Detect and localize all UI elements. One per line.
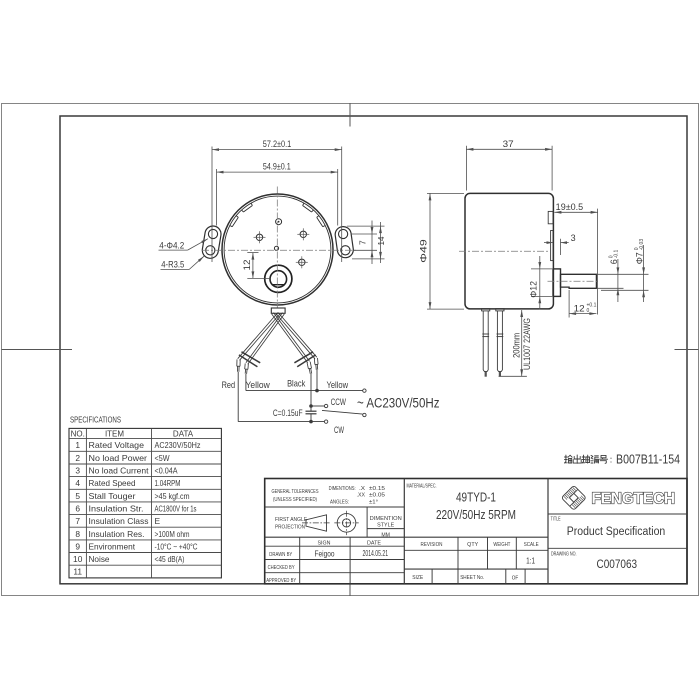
svg-text:57.2±0.1: 57.2±0.1 <box>263 139 292 149</box>
svg-text:4: 4 <box>75 478 80 488</box>
svg-text:Black: Black <box>287 379 305 390</box>
svg-text:220V/50Hz 5RPM: 220V/50Hz 5RPM <box>436 508 516 522</box>
svg-text:DIMENTION: DIMENTION <box>370 516 402 522</box>
svg-text:AC1800V for 1s: AC1800V for 1s <box>155 504 197 514</box>
svg-text:Feigoo: Feigoo <box>315 550 335 559</box>
svg-text:AC230V/50Hz: AC230V/50Hz <box>155 440 201 450</box>
svg-text:Rated Voltage: Rated Voltage <box>89 440 145 450</box>
svg-text:NO.: NO. <box>71 429 85 438</box>
svg-text:PROJECTION: PROJECTION <box>275 524 305 530</box>
svg-text:37: 37 <box>503 139 514 149</box>
svg-text:<45 dB(A): <45 dB(A) <box>155 554 185 564</box>
svg-text:OF: OF <box>512 576 519 582</box>
svg-text:Rated Speed: Rated Speed <box>89 478 136 488</box>
svg-text:1.04RPM: 1.04RPM <box>155 478 181 488</box>
svg-text:200mm: 200mm <box>512 333 522 358</box>
svg-text:.X: .X <box>359 486 366 492</box>
svg-text:MM: MM <box>381 532 390 538</box>
svg-text:QTY: QTY <box>467 542 479 548</box>
svg-text:1:1: 1:1 <box>526 555 535 565</box>
svg-text:GENERAL TOLERANCES: GENERAL TOLERANCES <box>272 489 319 495</box>
svg-text:SCALE: SCALE <box>524 542 539 548</box>
svg-text:CHECKED BY: CHECKED BY <box>268 565 295 571</box>
svg-text:6: 6 <box>75 504 80 514</box>
svg-text:Φ7: Φ7 <box>635 252 645 264</box>
svg-text:SHEET No.: SHEET No. <box>460 575 484 581</box>
svg-text:UL1007 22AWG: UL1007 22AWG <box>522 318 532 370</box>
svg-text:7: 7 <box>75 516 80 526</box>
svg-text:6: 6 <box>609 259 619 264</box>
svg-text:14: 14 <box>376 236 386 245</box>
svg-text:~ AC230V/50Hz: ~ AC230V/50Hz <box>357 396 440 411</box>
svg-text:C007063: C007063 <box>597 557 638 571</box>
svg-text:3: 3 <box>75 466 80 476</box>
svg-text:Insulation Str.: Insulation Str. <box>89 504 144 514</box>
svg-text:FIRST ANGLE: FIRST ANGLE <box>275 517 308 523</box>
svg-text:<0.04A: <0.04A <box>155 466 178 476</box>
svg-text:No load Power: No load Power <box>89 453 148 463</box>
svg-text:.XX: .XX <box>357 493 366 499</box>
svg-text:10: 10 <box>73 554 83 564</box>
svg-text:ITEM: ITEM <box>105 429 124 438</box>
svg-text:Product Specification: Product Specification <box>567 526 666 538</box>
svg-text:±0.15: ±0.15 <box>369 486 385 492</box>
svg-text:3: 3 <box>571 233 576 243</box>
svg-text:Stall Touger: Stall Touger <box>89 491 136 501</box>
svg-text:-0.03: -0.03 <box>639 239 645 251</box>
svg-text:±1°: ±1° <box>369 499 378 505</box>
svg-text:Yellow: Yellow <box>246 380 270 391</box>
svg-text:DATA: DATA <box>173 429 194 438</box>
svg-text:FENGTECH: FENGTECH <box>592 490 676 507</box>
svg-text:Φ49: Φ49 <box>419 239 429 263</box>
svg-text:DIMENTIONS:: DIMENTIONS: <box>329 486 356 492</box>
svg-text:11: 11 <box>73 567 82 577</box>
svg-text:12: 12 <box>574 304 585 314</box>
svg-text:7: 7 <box>358 240 368 245</box>
svg-text:8: 8 <box>75 529 80 539</box>
svg-text:±0.05: ±0.05 <box>369 493 385 499</box>
svg-text:12: 12 <box>242 260 252 271</box>
svg-text:19±0.5: 19±0.5 <box>556 202 584 212</box>
svg-text:(UNLESS SPECIFIED): (UNLESS SPECIFIED) <box>273 497 317 503</box>
svg-text:APPROVED BY: APPROVED BY <box>266 578 296 584</box>
svg-text:STYLE: STYLE <box>377 523 395 529</box>
svg-text:ANGLES:: ANGLES: <box>330 499 349 505</box>
svg-text:CCW: CCW <box>331 397 346 408</box>
svg-text:-10°C ~ +40°C: -10°C ~ +40°C <box>155 541 198 551</box>
svg-text:DRAWING NO.: DRAWING NO. <box>551 552 577 558</box>
svg-text:49TYD-1: 49TYD-1 <box>456 491 496 505</box>
svg-text:2014.05.21: 2014.05.21 <box>363 549 389 558</box>
svg-text:E: E <box>155 516 161 526</box>
svg-text:B007B11-154: B007B11-154 <box>616 452 680 467</box>
svg-text:9: 9 <box>75 541 80 551</box>
svg-text:Φ12: Φ12 <box>529 281 539 298</box>
svg-text:Yellow: Yellow <box>327 380 349 391</box>
svg-text:2: 2 <box>75 453 80 463</box>
svg-text:SPECIFICATIONS: SPECIFICATIONS <box>70 415 121 425</box>
svg-text:-0.1: -0.1 <box>613 249 619 258</box>
svg-text:DATE: DATE <box>367 541 382 547</box>
svg-text:Red: Red <box>222 380 236 391</box>
svg-text:DRAWN BY: DRAWN BY <box>269 552 292 558</box>
svg-text:SIGN: SIGN <box>318 541 331 547</box>
svg-text:54.9±0.1: 54.9±0.1 <box>263 162 291 172</box>
svg-text:4-R3.5: 4-R3.5 <box>161 260 184 270</box>
svg-text:MATERIAL/SPEC.: MATERIAL/SPEC. <box>407 484 437 490</box>
svg-text:1: 1 <box>75 440 80 450</box>
svg-text:C=0.15uF: C=0.15uF <box>273 408 303 419</box>
svg-text:>45 kgf.cm: >45 kgf.cm <box>155 491 190 501</box>
svg-text:WEIGHT: WEIGHT <box>493 542 511 548</box>
svg-text:SIZE: SIZE <box>412 575 424 581</box>
svg-text:REVISION: REVISION <box>421 542 443 548</box>
svg-text:Insulation Res.: Insulation Res. <box>89 529 145 539</box>
svg-text:TITLE: TITLE <box>551 516 561 522</box>
svg-text:CW: CW <box>334 425 344 436</box>
svg-text:Environment: Environment <box>89 541 136 551</box>
svg-text:>100M ohm: >100M ohm <box>155 529 190 539</box>
svg-text:Noise: Noise <box>89 554 110 564</box>
svg-text:5: 5 <box>75 491 80 501</box>
svg-text:0: 0 <box>587 308 590 314</box>
svg-text:Insulation Class: Insulation Class <box>89 516 149 526</box>
svg-text:<5W: <5W <box>155 453 170 463</box>
svg-text:4-Φ4.2: 4-Φ4.2 <box>159 241 184 251</box>
svg-text:No load Current: No load Current <box>89 466 150 476</box>
